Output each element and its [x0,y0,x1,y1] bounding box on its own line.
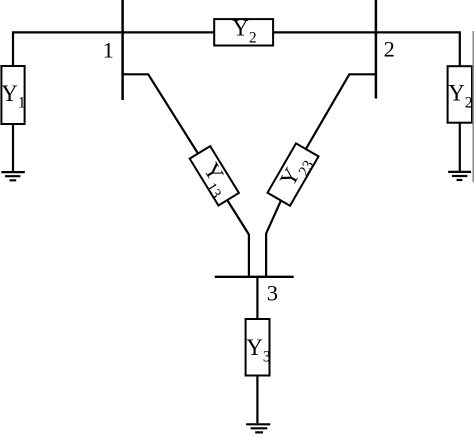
scan artifact strip at right edge [472,31,474,182]
bus 1 [121,0,124,100]
ground (left, below Y1) [1,172,24,180]
wire: branch node2 to node3 (through Y23) [266,74,376,276]
bus 2 [375,0,378,99]
admittance box Y2 (top, between node1 and node2) [214,16,273,47]
admittance box Y23 (rotated on branch 2-3) [267,143,322,208]
bus 3 [215,276,294,278]
admittance box Y3 [246,319,271,376]
wire: branch node1 to node3 (through Y13) [123,74,249,276]
ground (bottom, below Y3) [246,424,270,432]
svg-text:2: 2 [384,37,395,62]
ground (right, below Y2 shunt) [448,172,471,180]
svg-text:3: 3 [267,280,278,305]
wire: node3 to Y3 to ground [256,277,258,424]
svg-text:1: 1 [103,38,114,63]
admittance box Y2 (right shunt at node2) [448,66,473,123]
admittance box Y1 [1,66,25,124]
admittance box Y13 (rotated on branch 1-3) [186,145,241,208]
wire: top rail node1-to-node2 with shunt drops [13,32,460,171]
